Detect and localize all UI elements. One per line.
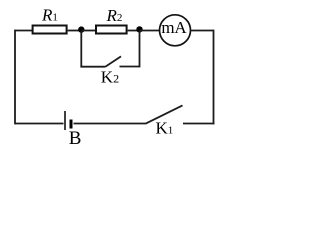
node B (junction dot right)	[136, 26, 142, 32]
wire battery to bottom-left corner	[15, 123, 64, 125]
wire K2 right contact	[120, 66, 140, 68]
wire R1 to node A	[68, 30, 82, 32]
wire node B to ammeter	[140, 30, 160, 32]
resistor R2	[96, 26, 127, 34]
wire R2 to node B	[128, 30, 140, 32]
svg-text:B: B	[69, 128, 82, 149]
wire left side	[14, 30, 16, 125]
wire node A to R2	[81, 30, 96, 32]
battery B long plate	[64, 111, 66, 130]
battery B short thick plate	[70, 120, 73, 129]
wire ammeter to top-right corner	[190, 30, 214, 32]
wire K1 right contact	[183, 123, 214, 125]
wire top-left: left corner to R1	[15, 30, 32, 32]
switch K1 blade	[146, 105, 183, 123]
ammeter U1 (mA meter)	[160, 15, 191, 46]
wire up from K2 to node B	[139, 31, 141, 67]
switch K2 blade	[105, 56, 121, 66]
wire K1 to battery	[74, 123, 147, 125]
svg-text:mA: mA	[161, 18, 187, 37]
node A (junction dot left)	[78, 26, 84, 32]
wire K2 left contact	[80, 66, 105, 68]
resistor R1	[33, 26, 67, 34]
wire right side	[213, 30, 215, 125]
wire node A down to K2 branch	[80, 31, 82, 67]
